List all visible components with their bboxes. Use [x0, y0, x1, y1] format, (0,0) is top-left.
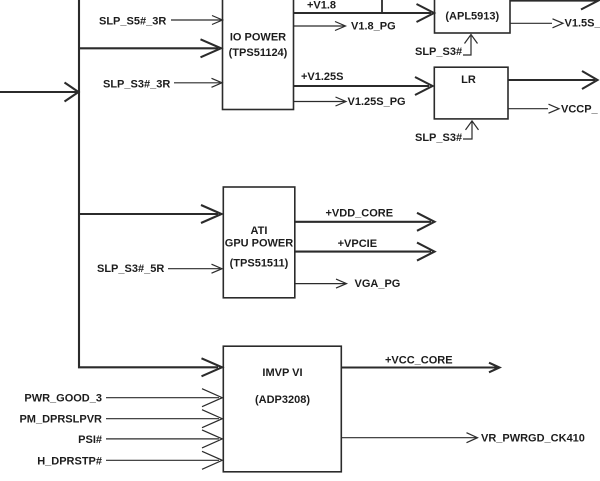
svg-text:H_DPRSTP#: H_DPRSTP# [37, 455, 102, 467]
wire: arrowhead of left input at bus [65, 83, 79, 102]
block U2 linear regulator (APL5913) [435, 0, 511, 33]
wire: big thin arrowhead H_DPRSTP# [202, 451, 222, 469]
wire: SLP_S3#_5R into ATI GPU POWER [168, 268, 220, 270]
wire: small arrowhead SLP_S3#_3R [212, 78, 223, 87]
svg-text:+VDD_CORE: +VDD_CORE [326, 208, 394, 220]
svg-text:V1.5S_: V1.5S_ [565, 17, 600, 29]
wire: arrowhead +VCC_CORE [489, 363, 500, 373]
wire: +V1.8 branch going up off-page [381, 0, 383, 13]
wire: bus branch into ATI GPU POWER [79, 213, 218, 215]
block U4 ATI GPU POWER (TPS51511) [223, 187, 294, 298]
wire: big arrowhead into ATI GPU POWER [201, 205, 222, 223]
wire: +VDD_CORE output [295, 221, 431, 223]
svg-text:SLP_S5#_3R: SLP_S5#_3R [99, 15, 166, 27]
block U1 IO POWER (TPS51124) [223, 0, 294, 110]
svg-text:(ADP3208): (ADP3208) [255, 394, 310, 406]
wire: small arrowhead VR_PWRGD_CK410 [467, 433, 478, 443]
wire: big arrowhead LR output [582, 71, 598, 89]
wire: small arrowhead V1.25S_PG [336, 97, 347, 106]
svg-text:SLP_S3#: SLP_S3# [415, 46, 462, 58]
wire: big arrowhead into IO POWER [201, 39, 222, 57]
wire: V1.5S output of APL5913 [510, 22, 552, 24]
svg-text:+V1.25S: +V1.25S [301, 71, 344, 83]
wire: SLP_S3#_3R into IO POWER [174, 82, 220, 84]
wire: H_DPRSTP# into IMVP VI [106, 459, 219, 461]
svg-text:(TPS51124): (TPS51124) [229, 47, 288, 59]
wire: big thin arrowhead PM_DPRSLPVR [202, 410, 222, 428]
wire: +VCC_CORE output of IMVP VI [341, 366, 497, 368]
wire: VGA_PG output [295, 283, 345, 285]
svg-text:V1.25S_PG: V1.25S_PG [348, 96, 406, 108]
block U5 IMVP VI (ADP3208) [223, 346, 341, 472]
svg-text:VCCP_: VCCP_ [561, 103, 599, 115]
wire: small arrowhead VCCP [549, 104, 560, 113]
wire: APL5913 top output going right off-page [510, 0, 597, 2]
wire: big thin arrowhead PSI# [202, 430, 222, 448]
svg-text:PM_DPRSLPVR: PM_DPRSLPVR [19, 414, 102, 426]
wire: PM_DPRSLPVR into IMVP VI [106, 418, 219, 420]
svg-text:IO POWER: IO POWER [230, 31, 286, 43]
wire: small up arrowhead SLP_S3# into LR [466, 121, 479, 130]
wire: V1.8_PG output [294, 25, 345, 27]
svg-text:SLP_S3#: SLP_S3# [415, 132, 462, 144]
wire: main power bus vertical with elbow into IMVP VI [79, 0, 218, 367]
svg-text:+VCC_CORE: +VCC_CORE [385, 355, 453, 367]
svg-text:LR: LR [461, 74, 476, 86]
svg-text:V1.8_PG: V1.8_PG [351, 21, 396, 33]
wire: +VPCIE output [295, 251, 431, 253]
wire: big arrowhead +VPCIE [417, 243, 435, 261]
wire: SLP_S3# elbow up into APL5913 bottom [463, 36, 471, 55]
svg-text:GPU POWER: GPU POWER [225, 238, 294, 250]
svg-text:(TPS51511): (TPS51511) [230, 258, 289, 270]
svg-text:+V1.8: +V1.8 [307, 0, 336, 11]
wire: small arrowhead SLP_S3#_5R [212, 264, 223, 273]
block U3 LR regulator [434, 67, 508, 119]
svg-text:ATI: ATI [251, 225, 268, 237]
wire: big arrowhead of APL5913 top output (partially cropped) [581, 0, 599, 10]
wire: small arrowhead V1.5S [553, 19, 564, 28]
wire: SLP_S5#_3R into IO POWER [171, 19, 221, 21]
wire: big arrowhead +VDD_CORE [417, 213, 435, 231]
wire: SLP_S3# elbow up into LR bottom [463, 122, 472, 139]
wire: +V1.8 from IO POWER to APL5913 [294, 12, 432, 14]
svg-text:VR_PWRGD_CK410: VR_PWRGD_CK410 [481, 433, 585, 445]
wire: PSI# into IMVP VI [106, 438, 219, 440]
wire: small up arrowhead SLP_S3# into APL5913 [465, 35, 478, 44]
svg-text:SLP_S3#_5R: SLP_S3#_5R [97, 263, 164, 275]
wire: big arrowhead +V1.25S into LR [415, 77, 433, 95]
wire: input arrow from left edge into power bus [0, 91, 78, 93]
wire: V1.25S_PG output [294, 101, 345, 103]
wire: big arrowhead of bus elbow into IMVP VI [202, 358, 223, 376]
wire: small arrowhead V1.8_PG [335, 22, 346, 31]
wire: +V1.25S from IO POWER to LR [294, 85, 430, 87]
wire: PWR_GOOD_3 into IMVP VI [106, 397, 219, 399]
svg-text:(APL5913): (APL5913) [445, 11, 499, 23]
svg-text:PWR_GOOD_3: PWR_GOOD_3 [24, 393, 102, 405]
wire: big thin arrowhead PWR_GOOD_3 [202, 389, 222, 407]
wire: bus branch into IO POWER [79, 47, 218, 49]
svg-text:IMVP VI: IMVP VI [262, 367, 302, 379]
wire: small arrowhead VGA_PG [336, 279, 347, 288]
wire: VR_PWRGD_CK410 output of IMVP VI [341, 437, 476, 439]
svg-text:+VPCIE: +VPCIE [338, 238, 377, 250]
wire: LR main output going right off-page [508, 79, 595, 81]
wire: big arrowhead +V1.8 into APL5913 [417, 4, 435, 22]
wire: small arrowhead SLP_S5#_3R [212, 16, 223, 25]
wire: VCCP output of LR [508, 108, 548, 110]
svg-text:SLP_S3#_3R: SLP_S3#_3R [103, 78, 170, 90]
svg-text:VGA_PG: VGA_PG [355, 278, 401, 290]
svg-text:PSI#: PSI# [78, 434, 102, 446]
